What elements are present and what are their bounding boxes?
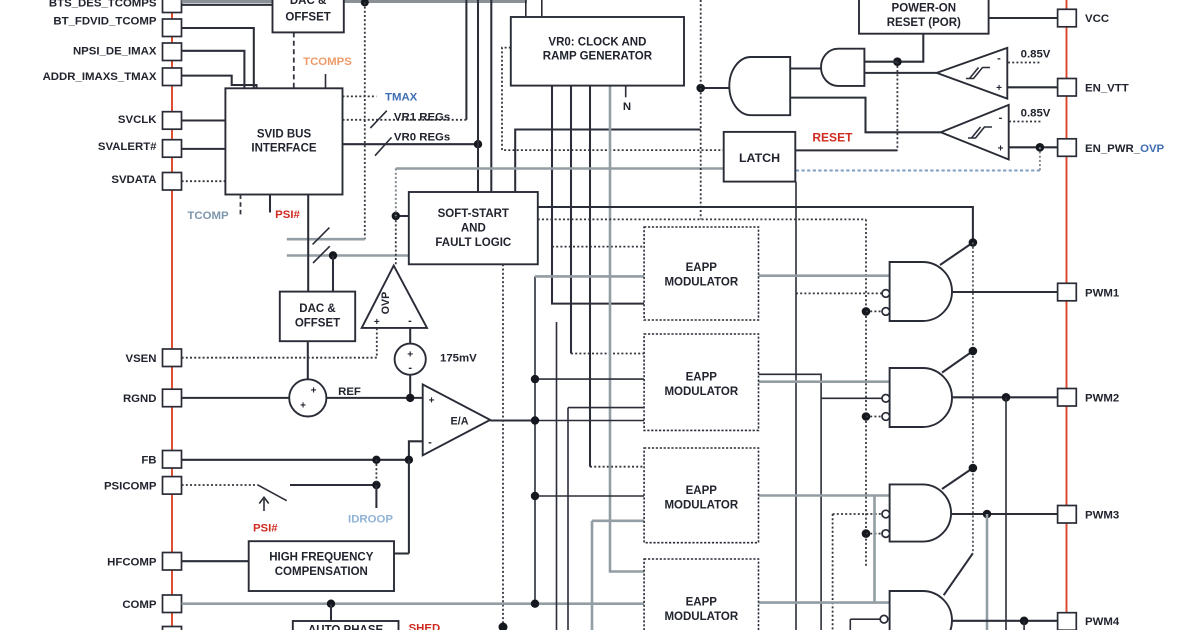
bubble gate2 a (882, 395, 890, 403)
comparator EN_VTT output to AND2 (864, 72, 936, 74)
comparator EN_VTT (points left) (937, 48, 1008, 99)
pin FB (163, 451, 182, 469)
svg-text:TCOMP: TCOMP (187, 210, 229, 222)
junction AND1 output (696, 84, 705, 93)
wire PWM4 output (952, 620, 1058, 622)
svg-text:EAPP: EAPP (686, 485, 718, 497)
svg-text:RGND: RGND (123, 393, 157, 405)
wire comparator output bus to SOFT-START (515, 130, 701, 193)
junction gray bus to DAC (329, 251, 337, 259)
junction COMP branch EAPP2 (531, 375, 539, 383)
IC boundary left (red) (171, 0, 173, 630)
svg-text:+: + (996, 83, 1002, 94)
svg-text:HFCOMP: HFCOMP (107, 556, 157, 568)
junction on top bus bar (361, 0, 369, 6)
svg-text:AND: AND (461, 223, 486, 235)
svg-text:PSI#: PSI# (275, 209, 300, 221)
IC boundary right (red) (1066, 0, 1068, 630)
wire NPSI_DE_IMAX to SVID top (182, 51, 245, 89)
wire vertical riser VR1 (465, 0, 467, 120)
pin SVCLK (163, 112, 182, 130)
wire SOFT-START out C dotted to gate-disable rail (538, 218, 866, 220)
svg-text:MODULATOR: MODULATOR (664, 500, 738, 512)
svg-text:+: + (374, 317, 380, 328)
wire riser into SOFT-START (from VR0 REGs junction) (477, 0, 479, 192)
svg-text:SVALERT#: SVALERT# (98, 141, 157, 153)
wire switch right segment to IDROOP node (290, 484, 376, 486)
svg-text:SVDATA: SVDATA (111, 174, 156, 186)
wire reset node to AND2 input (864, 61, 897, 63)
pin PWM2 (1058, 389, 1077, 407)
wire PWM4 diagonal (944, 553, 973, 595)
junction EN_PWR node (1036, 143, 1045, 152)
svg-text:COMP: COMP (122, 599, 157, 611)
wire FB line (182, 459, 409, 461)
wire gate4 mid input (850, 618, 880, 620)
comparator EN_PWR (points left) (941, 105, 1009, 160)
summer REF (289, 379, 326, 416)
wire SVALERT# to SVID (182, 148, 226, 150)
wire POR down to reset node (897, 34, 923, 62)
wire PSICOMP to switch (182, 484, 258, 486)
junction PWM3 out (983, 510, 992, 519)
wire stub to gate3 bubble (866, 533, 882, 535)
wire TCOMPS stub into SVID top (325, 74, 327, 88)
wire HF comp out (394, 552, 409, 554)
junction VR0 REGs / vertical (474, 140, 482, 148)
wire clock bus 4 (gray) to EAPP4 (610, 86, 644, 572)
switch PSI# blade (257, 485, 286, 501)
pin RGND (163, 389, 182, 407)
wire EAPP4 output (759, 601, 890, 604)
pin BTS_DES_TCOMPS (163, 0, 182, 13)
wire PWM3 output (951, 513, 1058, 515)
pin VCC (1058, 9, 1077, 27)
wire gate3 mid input dotted (833, 513, 883, 515)
wire clock bus 1 to EAPP1 (552, 86, 644, 304)
wire riser into SOFT-START 2 (490, 0, 492, 192)
wire VSEN dotted to OVP + (182, 328, 377, 358)
wire PWM2 output (952, 396, 1058, 398)
wire COMP gray line to EAPP4 (182, 602, 644, 605)
wire BTS_DES_TCOMPS to DAC & OFFSET (182, 4, 273, 6)
svg-text:COMPENSATION: COMPENSATION (275, 566, 368, 578)
gate NAND PWM2 (890, 368, 952, 427)
junction REF node (406, 394, 414, 402)
wire PSI# stub under SVID (269, 195, 271, 213)
wire gray from OVP node to LATCH (396, 167, 724, 170)
svg-text:SOFT-START: SOFT-START (438, 208, 509, 220)
hysteresis symbol comp1 (966, 68, 990, 79)
pin BT_FDVID_TCOMP (163, 19, 182, 37)
wire AND2 out to AND1 (790, 67, 821, 69)
wire N stub under VR0 (625, 86, 627, 98)
svg-text:EAPP: EAPP (686, 372, 718, 384)
svg-text:FB: FB (141, 455, 156, 467)
svg-text:MODULATOR: MODULATOR (664, 386, 738, 398)
svg-text:TMAX: TMAX (385, 91, 418, 103)
svg-text:RESET: RESET (812, 131, 853, 145)
wire SOFT-START out B to PWM gate rail (538, 207, 973, 243)
wire TCOMP dashed stub under SVID (240, 195, 242, 218)
svg-text:EAPP: EAPP (686, 262, 718, 274)
wire PWM2 diagonal (942, 351, 973, 373)
wire POR to VCC pin (989, 17, 1058, 19)
junction E/A out (531, 416, 539, 424)
bubble gate1 b (882, 308, 890, 316)
svg-text:-: - (997, 53, 1001, 65)
svg-text:IDROOP: IDROOP (348, 514, 393, 526)
wire branch EAPP2 input (568, 407, 644, 409)
bubble gate3 b (882, 530, 890, 538)
svg-text:DAC &: DAC & (299, 303, 335, 315)
wire gate-disable rail vertical (865, 219, 867, 568)
block HIGH FREQUENCY COMPENSATION (249, 541, 394, 591)
junction bottom dotted (499, 623, 508, 630)
block DAC & OFFSET (mid) (280, 292, 355, 342)
bubble gate4 a (880, 615, 888, 623)
bubble gate3 a (882, 510, 890, 518)
wire gate2 mid input (821, 397, 882, 399)
wire gray cascade rail (873, 496, 876, 603)
wire VR1 REGs dotted to vertical riser (343, 119, 467, 121)
bus slash VR1 (370, 111, 387, 128)
wire PWM2 feedback drop (1005, 397, 1007, 630)
wire COMP branch to EAPP1 (gray) (535, 275, 644, 278)
junction disable g1 (862, 307, 871, 316)
junction COMP/AUTO PHASE (327, 600, 335, 608)
wire COMP branch to EAPP3 (535, 495, 644, 497)
wire IDROOP vertical tie (375, 460, 377, 485)
pin PWM3 (1058, 506, 1077, 524)
wire VR0 top stub 1 (525, 0, 527, 17)
wire junction down to DAC & OFFSET (332, 256, 334, 292)
svg-text:N: N (623, 101, 631, 113)
wire LATCH output to reset node rail (795, 149, 897, 151)
svg-text:PWM2: PWM2 (1085, 393, 1119, 405)
wire TCOMPS dashed DAC to SVID (293, 32, 295, 88)
pin SVDATA (163, 173, 182, 191)
wire phase bus down 1 (556, 322, 558, 630)
svg-text:VR0: CLOCK AND: VR0: CLOCK AND (548, 37, 646, 49)
gate NAND PWM1 (890, 262, 952, 321)
wire stub to gate2 bubble (866, 416, 882, 418)
junction disable g2 (862, 412, 871, 421)
svg-text:E/A: E/A (451, 416, 469, 428)
wire EN_PWR_OVP pin to comparator (1009, 146, 1058, 148)
source 175mV offset (395, 344, 426, 375)
wire SOFT-START bottom dotted drop (502, 264, 504, 627)
block DAC & OFFSET (top, clipped) (273, 0, 344, 32)
arrow PSI# switch actuator (259, 497, 268, 511)
wire EN_PWR node down (gray dotted) (1039, 147, 1041, 170)
svg-text:DAC &: DAC & (290, 0, 326, 7)
junction PWM3 diagonal (969, 464, 978, 473)
junction COMP rail / COMP pin line (531, 600, 539, 608)
svg-text:TCOMPS: TCOMPS (303, 56, 352, 68)
op-amp E/A error amplifier (423, 384, 491, 455)
svg-text:SVID BUS: SVID BUS (257, 129, 312, 141)
wire COMP branch to EAPP2 lower (535, 420, 644, 422)
bus slash VR0 (375, 137, 392, 155)
svg-text:-: - (999, 112, 1003, 124)
svg-text:175mV: 175mV (440, 353, 477, 365)
pin SVALERT# (163, 140, 182, 158)
svg-text:PWM1: PWM1 (1085, 288, 1120, 300)
wire PWM1 diagonal (940, 243, 973, 266)
wire HFCOMP to block (182, 560, 249, 562)
svg-text:NPSI_DE_IMAX: NPSI_DE_IMAX (73, 46, 157, 58)
wire OVP - to 175mV source (409, 328, 411, 344)
wire dashed 0.85V comp1 (1008, 62, 1041, 64)
junction COMP branch EAPP3 (531, 492, 539, 500)
svg-text:0.85V: 0.85V (1021, 108, 1051, 120)
wire dotted rail down from top (700, 0, 702, 219)
svg-text:+: + (300, 401, 306, 412)
wire PSI# vertical SVID to DAC & OFFSET (307, 195, 309, 292)
block LATCH (724, 132, 796, 182)
wire E/A output to COMP rail (490, 419, 535, 421)
svg-text:LATCH: LATCH (739, 151, 780, 165)
bus slash lower (313, 246, 330, 263)
hysteresis symbol comp2 (968, 127, 992, 138)
wire gate3 mid rail dotted (832, 514, 834, 630)
svg-text:MODULATOR: MODULATOR (664, 611, 738, 623)
junction PWM2 diagonal (969, 347, 978, 356)
svg-text:FAULT LOGIC: FAULT LOGIC (435, 237, 511, 249)
junction FB/IDROOP (372, 456, 380, 464)
wire EAPP1 output (759, 274, 890, 277)
svg-text:BT_FDVID_TCOMP: BT_FDVID_TCOMP (53, 16, 157, 28)
wire dotted vertical from top bus junction (364, 2, 366, 239)
svg-text:PWM3: PWM3 (1085, 510, 1119, 522)
svg-text:OFFSET: OFFSET (285, 12, 330, 24)
svg-text:VSEN: VSEN (125, 353, 156, 365)
svg-text:HIGH FREQUENCY: HIGH FREQUENCY (269, 552, 373, 564)
svg-text:RAMP GENERATOR: RAMP GENERATOR (543, 51, 653, 63)
junction OVP node (392, 212, 400, 220)
svg-text:+: + (998, 144, 1004, 155)
block POWER-ON RESET (POR) (859, 0, 989, 34)
gate AND2 (points left) (821, 49, 864, 86)
bubble gate1 a (882, 290, 890, 298)
wire gate1 mid input dotted (796, 292, 882, 294)
bus slash upper (313, 228, 330, 245)
svg-text:EN_PWR_OVP: EN_PWR_OVP (1085, 143, 1165, 155)
svg-text:VR1 REGs: VR1 REGs (394, 112, 450, 124)
wire PWM1 output (952, 291, 1058, 293)
wire top gray bus bar (182, 0, 527, 3)
block SVID BUS INTERFACE (225, 88, 342, 194)
wire clock bus 2 to EAPP2 (570, 86, 572, 354)
wire BT_FDVID_TCOMP to SVID top (182, 28, 254, 88)
wire SVDATA to SVID (dotted) (182, 180, 226, 182)
svg-text:PSICOMP: PSICOMP (104, 481, 157, 493)
svg-text:VR0 REGs: VR0 REGs (394, 132, 450, 144)
comparator EN_PWR output path to AND1 (790, 98, 941, 133)
wire RGND to REF summer (182, 397, 290, 399)
wire COMP distribution vertical (534, 276, 536, 603)
pin EN_PWR_OVP (1058, 139, 1077, 157)
wire TMAX dotted (343, 95, 377, 97)
block EAPP MODULATOR 3 (644, 448, 758, 543)
wire PWM rail dotted (972, 243, 974, 554)
wire gray bus lower into SOFT-START (287, 254, 409, 257)
wire dotted from VR0 left to LATCH (502, 48, 724, 151)
gate NAND PWM4 (clipped) (890, 591, 952, 630)
wire stub to gate1 bubble (866, 310, 882, 312)
wire gray bus upper with slash (287, 238, 365, 241)
wire IDROOP stub (375, 485, 377, 508)
junction PWM4 out (1020, 617, 1029, 626)
wire clock bus 3 to EAPP3 (589, 86, 591, 467)
wire SVCLK to SVID (182, 119, 226, 121)
block VR0: CLOCK AND RAMP GENERATOR (511, 17, 684, 86)
svg-text:ADDR_IMAXS_TMAX: ADDR_IMAXS_TMAX (43, 71, 157, 83)
block EAPP MODULATOR 1 (644, 227, 758, 320)
wire phase bus down 2 (567, 408, 569, 630)
wire reset node dotted down to latch wire (896, 62, 898, 151)
block SOFT-START AND FAULT LOGIC (409, 192, 538, 264)
wire dashed 0.85V comp2 (1009, 121, 1042, 123)
pin EN_VTT (1058, 79, 1077, 97)
gate AND1 (points left) (729, 57, 790, 115)
wire LATCH drop rail (795, 182, 797, 630)
wire PWM3 feedback drop (gray) (986, 514, 989, 630)
gate NAND PWM3 (890, 484, 951, 541)
wire VR0 REGs (343, 143, 479, 145)
block EAPP MODULATOR 2 (644, 334, 758, 430)
wire VR0 top stub 2 (541, 0, 543, 17)
wire 175mV to REF node (409, 375, 411, 398)
wire gate4 mid rail (849, 619, 851, 630)
wire FB node down to HF compensation (408, 460, 410, 554)
block EAPP MODULATOR 4 (clipped) (644, 559, 758, 630)
svg-text:RESET (POR): RESET (POR) (887, 17, 961, 29)
wire PWM4 feedback drop (1023, 621, 1025, 630)
wire OVP blue dashed to LATCH (795, 170, 1040, 172)
wire EN_VTT pin to comparator (1007, 86, 1057, 88)
svg-text:EAPP: EAPP (686, 597, 718, 609)
wire EAPP2 output (759, 380, 890, 383)
svg-text:SVCLK: SVCLK (118, 114, 157, 126)
pin ADDR_IMAXS_TMAX (163, 68, 182, 86)
wire EAPP2 aux out to rail (759, 374, 822, 630)
pin COMP (163, 595, 182, 613)
wire SOFT-START input from OVP node (396, 215, 409, 217)
junction PWM2 out (1002, 393, 1011, 402)
pin PWM4 (1058, 613, 1077, 630)
wire AND1 out to dotted rail (701, 87, 730, 89)
junction disable g3 (862, 529, 871, 538)
svg-text:-: - (428, 437, 432, 449)
svg-text:+: + (429, 396, 435, 407)
pin NPSI_DE_IMAX (163, 43, 182, 61)
svg-text:EN_VTT: EN_VTT (1085, 83, 1129, 95)
wire PWM3 diagonal (942, 468, 973, 489)
pin PSICOMP (163, 477, 182, 495)
svg-text:BTS_DES_TCOMPS: BTS_DES_TCOMPS (49, 0, 157, 9)
wire EAPP3 output (759, 494, 890, 497)
wire ADDR_IMAXS_TMAX to SVID top (182, 76, 257, 89)
svg-text:POWER-ON: POWER-ON (892, 3, 957, 15)
block AUTO PHASE (clipped) (293, 621, 399, 630)
bubble gate2 b (882, 413, 890, 421)
pin HFCOMP (163, 553, 182, 571)
svg-text:OVP: OVP (380, 292, 392, 314)
wire branch EAPP3 input (gray) (592, 519, 644, 522)
pin VSEN (163, 349, 182, 367)
wire phase bus down 3 (gray) (591, 521, 594, 630)
svg-text:AUTO PHASE: AUTO PHASE (308, 625, 384, 630)
svg-text:-: - (408, 315, 412, 327)
junction switch/IDROOP (372, 481, 380, 489)
wire OVP output riser (dotted) (395, 169, 397, 217)
svg-text:SHED: SHED (409, 623, 441, 630)
wire DAC to REF summer (307, 341, 309, 379)
wire to AUTO PHASE (330, 604, 332, 621)
wire REF summer to E/A + (326, 397, 422, 399)
svg-text:INTERFACE: INTERFACE (251, 143, 317, 155)
wire COMP branch to EAPP2 (535, 378, 644, 380)
svg-text:PSI#: PSI# (253, 523, 278, 535)
svg-text:VCC: VCC (1085, 13, 1109, 25)
junction reset node (893, 57, 902, 66)
svg-text:OFFSET: OFFSET (295, 318, 340, 330)
svg-text:+: + (407, 350, 413, 361)
svg-text:+: + (311, 386, 317, 397)
svg-text:MODULATOR: MODULATOR (664, 277, 738, 289)
svg-text:PWM4: PWM4 (1085, 616, 1120, 628)
svg-text:-: - (408, 362, 412, 374)
svg-text:REF: REF (338, 386, 361, 398)
wire E/A - input from FB node (409, 441, 423, 460)
junction PWM1 diagonal (969, 238, 978, 247)
junction FB/E-A (405, 456, 413, 464)
pin PWM1 (1058, 283, 1077, 301)
svg-text:0.85V: 0.85V (1021, 49, 1051, 61)
op-amp OVP comparator (points up) (362, 266, 427, 328)
pin partial bottom-left (163, 627, 182, 630)
